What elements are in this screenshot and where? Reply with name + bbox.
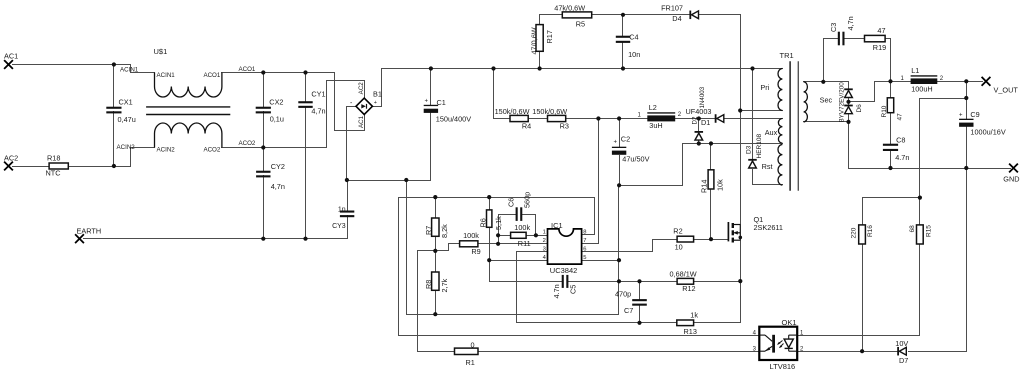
- svg-text:D1: D1: [701, 118, 710, 127]
- svg-text:TR1: TR1: [780, 51, 794, 60]
- svg-text:ACIN2: ACIN2: [157, 147, 176, 154]
- svg-text:ACIN1: ACIN1: [157, 72, 176, 79]
- svg-text:D7: D7: [899, 356, 908, 365]
- svg-text:C3: C3: [829, 23, 838, 32]
- svg-text:7: 7: [583, 238, 586, 244]
- svg-text:U$1: U$1: [154, 47, 168, 56]
- svg-text:Rst: Rst: [762, 162, 773, 171]
- svg-text:V_OUT: V_OUT: [994, 86, 1019, 95]
- svg-text:5: 5: [583, 255, 586, 261]
- svg-text:ACO1: ACO1: [239, 66, 256, 73]
- svg-text:BYV72EV/200: BYV72EV/200: [839, 82, 846, 123]
- svg-text:220: 220: [851, 227, 858, 238]
- svg-text:EARTH: EARTH: [77, 227, 102, 236]
- svg-text:150u/400V: 150u/400V: [436, 115, 471, 124]
- svg-text:4.7n: 4.7n: [552, 284, 561, 298]
- svg-text:100k: 100k: [463, 231, 479, 240]
- svg-text:0: 0: [471, 341, 475, 350]
- svg-text:B1: B1: [373, 90, 382, 99]
- svg-text:R1: R1: [466, 358, 475, 367]
- svg-text:560p: 560p: [523, 192, 532, 208]
- svg-text:68: 68: [909, 225, 916, 233]
- svg-text:+: +: [425, 99, 429, 105]
- svg-text:CY2: CY2: [271, 162, 285, 171]
- svg-text:L1: L1: [911, 66, 919, 75]
- svg-text:R3: R3: [560, 122, 569, 131]
- svg-text:C5: C5: [568, 285, 577, 294]
- svg-text:R18: R18: [47, 154, 60, 163]
- svg-text:0,68/1W: 0,68/1W: [670, 270, 697, 279]
- svg-text:FR107: FR107: [661, 4, 683, 13]
- svg-text:6: 6: [583, 247, 586, 253]
- svg-text:10n: 10n: [628, 50, 640, 59]
- svg-text:D4: D4: [672, 14, 681, 23]
- svg-text:10k: 10k: [716, 179, 725, 191]
- svg-text:1000u/16V: 1000u/16V: [970, 128, 1005, 137]
- svg-text:OK1: OK1: [782, 318, 797, 327]
- svg-text:HER108: HER108: [756, 134, 763, 159]
- svg-text:CX1: CX1: [119, 98, 133, 107]
- svg-text:ACIN2: ACIN2: [117, 144, 136, 151]
- svg-text:R16: R16: [867, 225, 874, 237]
- svg-text:C9: C9: [970, 110, 979, 119]
- svg-text:R17: R17: [545, 30, 554, 43]
- svg-text:150k/0,6W: 150k/0,6W: [532, 107, 567, 116]
- svg-text:+: +: [614, 140, 618, 146]
- svg-text:C1: C1: [437, 98, 446, 107]
- svg-text:C2: C2: [621, 135, 630, 144]
- svg-text:C6: C6: [507, 198, 516, 207]
- svg-text:R7: R7: [424, 226, 433, 235]
- svg-text:D2: D2: [692, 116, 699, 124]
- svg-text:R19: R19: [873, 43, 886, 52]
- svg-text:L2: L2: [649, 103, 657, 112]
- svg-text:C8: C8: [896, 136, 905, 145]
- svg-text:AC1: AC1: [4, 52, 18, 61]
- svg-text:8,2k: 8,2k: [440, 224, 449, 238]
- svg-text:10: 10: [675, 243, 683, 252]
- svg-text:CY3: CY3: [332, 223, 346, 230]
- svg-text:1: 1: [638, 113, 642, 119]
- svg-text:Aux: Aux: [765, 128, 778, 137]
- svg-text:C4: C4: [629, 33, 638, 42]
- svg-text:R8: R8: [424, 280, 433, 289]
- svg-text:2: 2: [543, 238, 546, 244]
- svg-text:10V: 10V: [895, 339, 908, 348]
- svg-text:4.7n: 4.7n: [895, 153, 909, 162]
- svg-text:R6: R6: [479, 218, 488, 227]
- svg-text:4,7n: 4,7n: [271, 182, 285, 191]
- svg-text:Sec: Sec: [820, 96, 833, 105]
- svg-text:R5: R5: [576, 20, 585, 29]
- svg-text:150k/0,6W: 150k/0,6W: [495, 107, 530, 116]
- svg-text:0,1u: 0,1u: [270, 115, 284, 124]
- svg-text:ACO2: ACO2: [239, 140, 256, 147]
- svg-text:C7: C7: [624, 306, 633, 315]
- svg-text:R2: R2: [673, 227, 682, 236]
- svg-text:D6: D6: [856, 104, 863, 113]
- svg-text:100uH: 100uH: [911, 85, 933, 94]
- svg-text:2: 2: [678, 112, 682, 118]
- svg-text:47u/50V: 47u/50V: [622, 155, 649, 164]
- svg-text:8: 8: [583, 230, 586, 236]
- svg-text:2SK2611: 2SK2611: [754, 223, 783, 232]
- svg-text:GND: GND: [1003, 175, 1019, 184]
- svg-text:CX2: CX2: [269, 98, 283, 107]
- svg-text:+: +: [374, 100, 377, 106]
- svg-text:4,7n: 4,7n: [311, 107, 325, 116]
- svg-text:R15: R15: [926, 225, 933, 237]
- svg-text:LTV816: LTV816: [770, 362, 796, 371]
- svg-text:R4: R4: [522, 122, 531, 131]
- svg-text:R13: R13: [684, 327, 697, 336]
- svg-text:0,47u: 0,47u: [118, 115, 136, 124]
- svg-text:47k/0,6W: 47k/0,6W: [554, 3, 585, 12]
- svg-text:UC3842: UC3842: [550, 266, 578, 275]
- svg-text:IC1: IC1: [551, 221, 563, 230]
- svg-text:Pri: Pri: [760, 83, 769, 92]
- svg-text:ACO2: ACO2: [203, 147, 220, 154]
- svg-text:47: 47: [877, 26, 885, 35]
- svg-text:100k: 100k: [514, 223, 530, 232]
- svg-text:4,7n: 4,7n: [846, 16, 855, 30]
- svg-text:470p: 470p: [615, 290, 631, 299]
- svg-text:R10: R10: [881, 105, 888, 117]
- svg-text:47: 47: [896, 113, 903, 121]
- svg-text:5,1k: 5,1k: [494, 216, 503, 230]
- svg-text:47/0,6W: 47/0,6W: [530, 27, 539, 54]
- svg-text:1n: 1n: [338, 207, 346, 214]
- svg-text:R11: R11: [518, 239, 531, 248]
- svg-text:AC2: AC2: [358, 82, 365, 95]
- svg-text:ACO1: ACO1: [203, 72, 220, 79]
- svg-text:NTC: NTC: [46, 169, 61, 178]
- svg-text:2,7k: 2,7k: [440, 278, 449, 292]
- svg-text:3: 3: [543, 247, 546, 253]
- svg-text:AC1: AC1: [358, 115, 365, 128]
- svg-text:1k: 1k: [690, 311, 698, 320]
- svg-text:ACIN1: ACIN1: [120, 67, 139, 74]
- svg-text:R9: R9: [471, 247, 480, 256]
- svg-text:+: +: [959, 113, 963, 119]
- svg-text:1: 1: [543, 230, 546, 236]
- svg-text:D3: D3: [746, 145, 753, 154]
- svg-text:AC2: AC2: [4, 154, 18, 163]
- svg-text:3uH: 3uH: [649, 121, 662, 130]
- svg-text:1N4003: 1N4003: [699, 86, 706, 108]
- svg-text:R14: R14: [699, 180, 708, 193]
- svg-text:CY1: CY1: [311, 90, 325, 99]
- svg-text:R12: R12: [682, 284, 695, 293]
